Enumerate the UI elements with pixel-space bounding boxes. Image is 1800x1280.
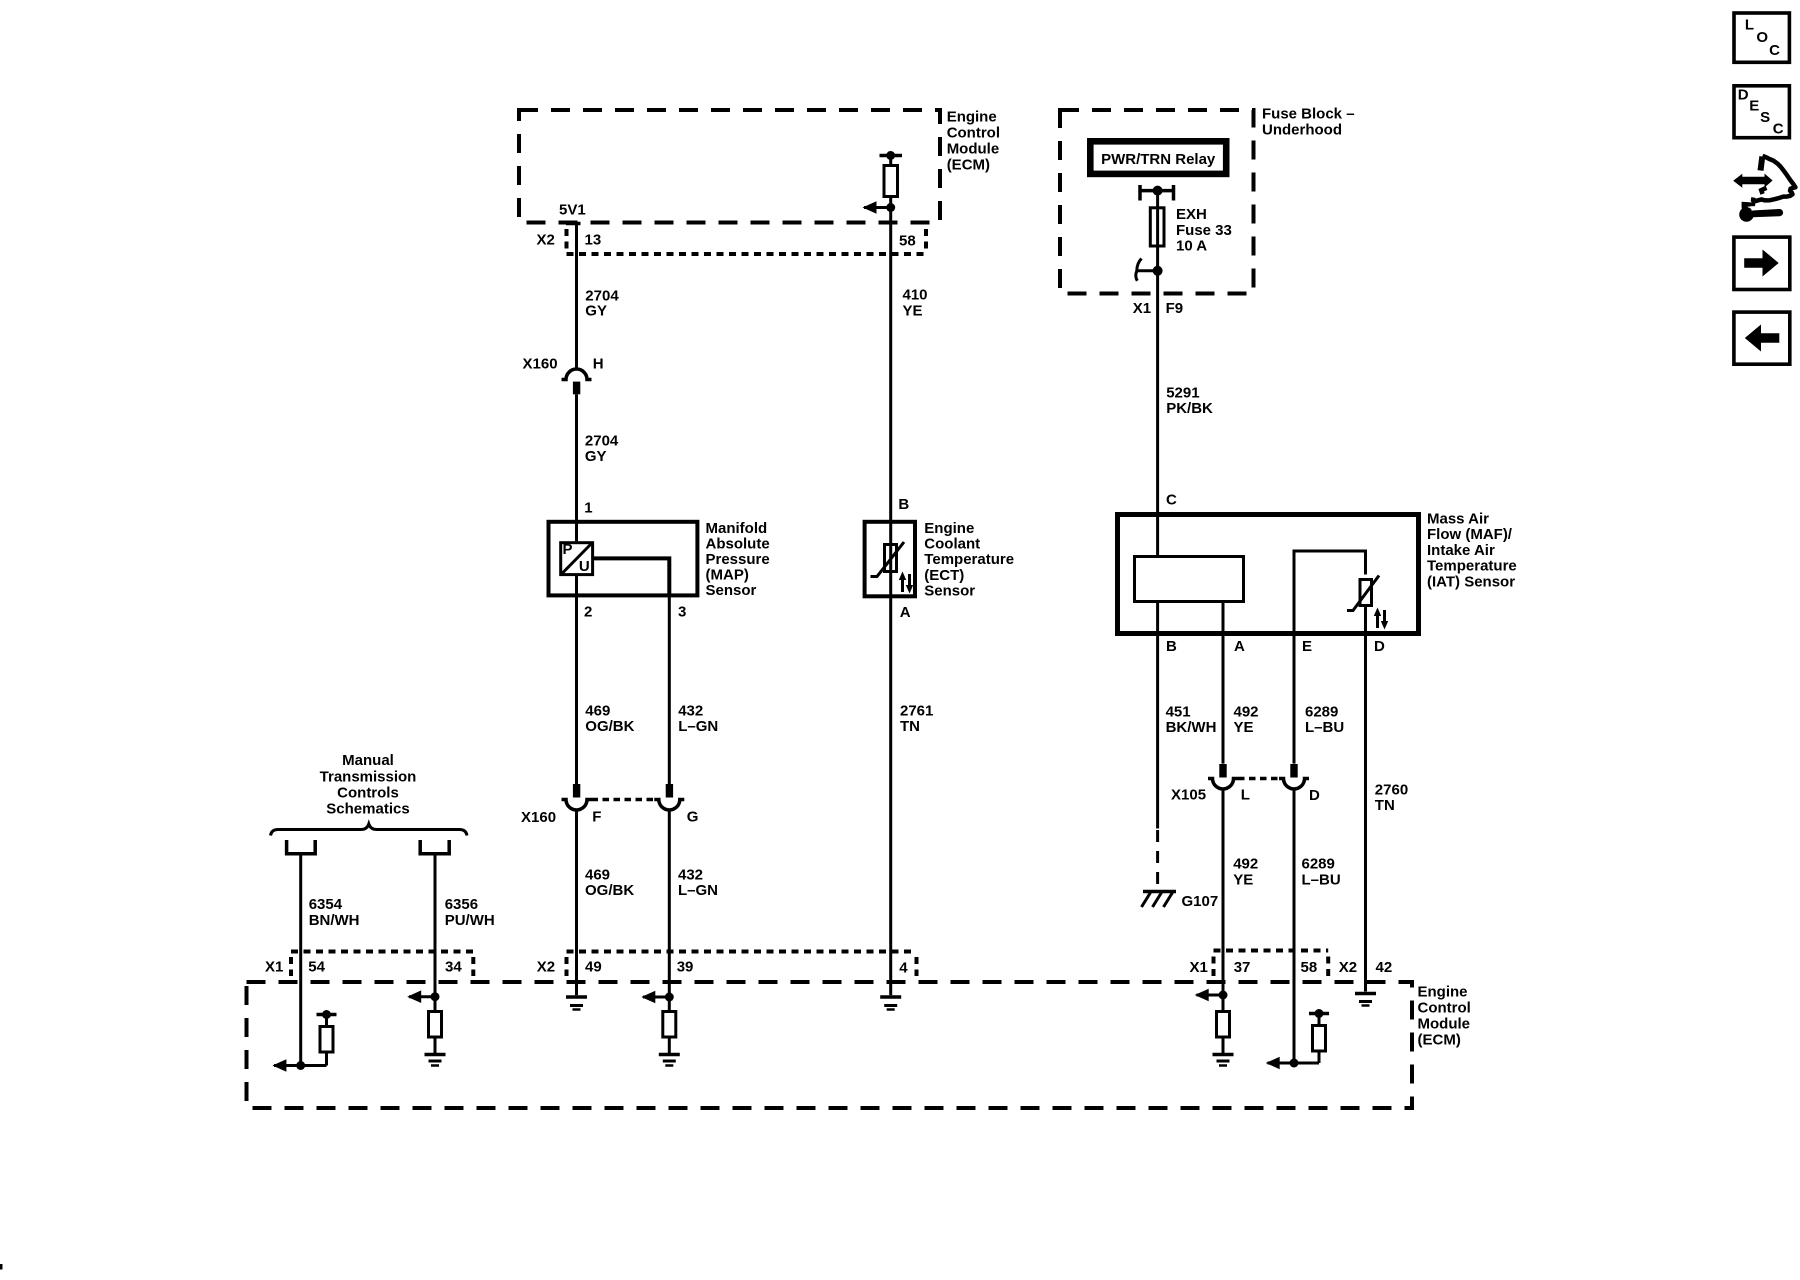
svg-text:Controls: Controls	[337, 784, 399, 801]
svg-text:Temperature: Temperature	[1427, 558, 1517, 575]
svg-text:492: 492	[1233, 856, 1258, 873]
inline connector X105 pins L and D	[1171, 764, 1320, 804]
wire 6354 BN/WH (to ECM pin 54)	[301, 854, 360, 1066]
IAT variable arrows	[1374, 608, 1388, 630]
svg-text:4: 4	[899, 960, 908, 977]
svg-text:D: D	[1738, 87, 1749, 104]
svg-text:(ECM): (ECM)	[947, 156, 990, 173]
toolbar button next	[1734, 237, 1790, 289]
svg-text:410: 410	[903, 287, 928, 304]
svg-text:49: 49	[585, 959, 602, 976]
svg-text:U: U	[579, 558, 590, 575]
toolbar button back	[1734, 312, 1790, 364]
svg-text:Engine: Engine	[947, 108, 997, 125]
svg-text:2: 2	[584, 604, 592, 621]
ground at pin 37	[1213, 1055, 1234, 1066]
svg-text:34: 34	[445, 959, 462, 976]
svg-text:B: B	[898, 496, 909, 513]
pin 58 pull-up resistor	[1309, 1009, 1329, 1063]
ECT thermistor element	[871, 522, 905, 597]
pin 39 internal circuit: arrow junction	[641, 991, 674, 1004]
svg-text:Temperature: Temperature	[924, 551, 1014, 568]
svg-text:Mass Air: Mass Air	[1427, 511, 1489, 528]
svg-text:X1: X1	[1190, 959, 1208, 976]
svg-text:3: 3	[678, 604, 686, 621]
wire 469 OG/BK (X160 F to ECM pin 49)	[577, 810, 635, 995]
svg-text:Absolute: Absolute	[706, 536, 770, 553]
pin 39 resistor to ground	[663, 997, 676, 1053]
svg-text:C: C	[1166, 491, 1177, 508]
toolbar button DESC	[1734, 86, 1789, 138]
svg-text:Fuse Block –: Fuse Block –	[1262, 106, 1355, 123]
pin 34 resistor to ground	[429, 997, 442, 1053]
svg-text:X160: X160	[521, 809, 556, 826]
ground at pin 42	[1355, 994, 1376, 1006]
fuse EXH Fuse 33 10 A	[1150, 191, 1232, 271]
svg-text:Schematics: Schematics	[326, 800, 409, 817]
svg-text:Transmission: Transmission	[320, 768, 417, 785]
svg-text:Flow (MAF)/: Flow (MAF)/	[1427, 526, 1513, 543]
svg-text:O: O	[1756, 29, 1768, 46]
svg-text:OG/BK: OG/BK	[585, 882, 634, 899]
svg-text:Underhood: Underhood	[1262, 121, 1342, 138]
wire 5291 PK/BK (fuse F9 to MAF pin C)	[1158, 271, 1213, 557]
svg-text:A: A	[1234, 638, 1245, 655]
svg-text:Engine: Engine	[1418, 984, 1468, 1001]
svg-text:F: F	[592, 809, 601, 826]
wire 451 BK/WH (MAF pin B toward G107)	[1158, 602, 1217, 829]
ground at pin 34	[425, 1055, 446, 1066]
ground at pin 39	[659, 1055, 680, 1066]
svg-text:YE: YE	[1234, 719, 1254, 736]
wire 410 YE (ECM pin 58 to ECT pin B)	[891, 208, 928, 522]
ECT sensor box (Engine Coolant Temperature)	[865, 496, 1014, 621]
IAT internal frame wire	[1294, 551, 1366, 634]
ECM X1 connector strip (pins 54, 34)	[265, 952, 473, 977]
MAP pin labels 2 and 3	[584, 604, 686, 621]
svg-text:5291: 5291	[1166, 385, 1199, 402]
svg-text:P: P	[563, 541, 573, 558]
svg-text:451: 451	[1166, 704, 1191, 721]
pin 54 internal circuit: arrow junction	[272, 1059, 326, 1072]
svg-text:E: E	[1302, 638, 1312, 655]
wire 492 YE (X105 L to ECM pin 37)	[1223, 789, 1258, 995]
svg-text:S: S	[1760, 109, 1770, 126]
svg-text:PWR/TRN Relay: PWR/TRN Relay	[1101, 151, 1216, 168]
svg-text:L–GN: L–GN	[678, 882, 718, 899]
svg-text:Module: Module	[947, 140, 1000, 157]
svg-text:G107: G107	[1182, 893, 1219, 910]
svg-text:2704: 2704	[585, 432, 619, 449]
ground G107	[1142, 892, 1219, 911]
svg-text:Pressure: Pressure	[706, 551, 770, 568]
svg-text:54: 54	[308, 959, 325, 976]
pin 34 internal circuit: arrow junction	[407, 990, 439, 1003]
svg-text:Manual: Manual	[342, 752, 394, 769]
svg-text:Control: Control	[947, 124, 1000, 141]
svg-text:BK/WH: BK/WH	[1166, 719, 1217, 736]
svg-text:Control: Control	[1418, 1000, 1471, 1017]
svg-text:2761: 2761	[900, 702, 933, 719]
off-page connector to wire 6356	[420, 840, 449, 854]
pin 37 resistor to ground	[1217, 995, 1230, 1053]
svg-text:58: 58	[1301, 959, 1318, 976]
svg-text:492: 492	[1234, 704, 1259, 721]
svg-text:(ECM): (ECM)	[1418, 1032, 1461, 1049]
pin 37 internal circuit: arrow junction	[1195, 989, 1228, 1002]
svg-text:X2: X2	[1339, 959, 1357, 976]
ground at pin 49	[566, 997, 587, 1010]
svg-text:Manifold: Manifold	[706, 520, 768, 537]
inline connector X160 pins F and G	[521, 784, 698, 826]
svg-text:EXH: EXH	[1176, 206, 1207, 223]
svg-text:Engine: Engine	[924, 520, 974, 537]
ground at pin 4	[880, 997, 901, 1010]
wire 2761 TN (ECT pin A to ECM pin 4)	[891, 596, 934, 995]
wire 6289 L-BU (MAF pin E to X105 D)	[1294, 634, 1344, 764]
ECM X1 connector strip (pins 37, 58)	[1190, 951, 1329, 977]
wire splice to ground (dashed)	[1156, 830, 1159, 889]
fuse block connector X1 pin F9	[1133, 300, 1183, 317]
svg-text:GY: GY	[585, 448, 607, 465]
svg-text:BN/WH: BN/WH	[309, 912, 360, 929]
svg-text:TN: TN	[900, 718, 920, 735]
svg-text:TN: TN	[1375, 797, 1395, 814]
svg-text:Sensor: Sensor	[706, 582, 757, 599]
svg-text:Intake Air: Intake Air	[1427, 542, 1495, 559]
note Manual Transmission Controls Schematics	[320, 752, 417, 817]
svg-text:A: A	[900, 604, 911, 621]
svg-text:6356: 6356	[445, 896, 478, 913]
svg-text:6289: 6289	[1305, 704, 1338, 721]
svg-text:D: D	[1374, 638, 1385, 655]
MAP transducer P/U element	[561, 522, 593, 596]
svg-text:H: H	[593, 355, 604, 372]
MAP internal output wire to pin 3	[593, 558, 670, 595]
ECM bottom module box (Engine Control Module)	[247, 982, 1471, 1108]
svg-text:5V1: 5V1	[559, 202, 586, 219]
pin 54 pull-up resistor	[317, 1010, 337, 1066]
svg-text:1: 1	[584, 500, 592, 517]
svg-text:469: 469	[585, 702, 610, 719]
svg-text:YE: YE	[903, 302, 923, 319]
svg-text:X105: X105	[1171, 787, 1206, 804]
Fuse Block - Underhood box	[1060, 106, 1355, 294]
toolbar button LOC	[1734, 13, 1789, 62]
svg-text:L–GN: L–GN	[678, 718, 718, 735]
svg-text:Sensor: Sensor	[924, 583, 975, 600]
svg-text:OG/BK: OG/BK	[585, 718, 634, 735]
svg-text:L–BU: L–BU	[1305, 719, 1344, 736]
toolbar icon jump-to-harness	[1733, 156, 1795, 201]
pin 58 internal circuit: arrow junction	[1266, 1057, 1319, 1070]
svg-text:X1: X1	[265, 959, 283, 976]
relay PWR/TRN Relay	[1090, 141, 1226, 174]
svg-text:C: C	[1773, 121, 1784, 138]
toolbar icon wrench	[1739, 202, 1783, 222]
wire 6356 PU/WH (to ECM pin 34)	[435, 854, 495, 997]
node 5V1	[559, 202, 586, 224]
svg-text:G: G	[687, 809, 699, 826]
svg-text:Module: Module	[1418, 1016, 1471, 1033]
svg-text:PU/WH: PU/WH	[445, 912, 495, 929]
wire 2704 GY (pin 13 to X160)	[577, 224, 620, 370]
svg-text:X1: X1	[1133, 300, 1151, 317]
svg-text:2760: 2760	[1375, 782, 1408, 799]
ECM X2 pin 42 labels	[1339, 959, 1392, 976]
svg-text:PK/BK: PK/BK	[1166, 400, 1213, 417]
svg-text:E: E	[1749, 97, 1759, 114]
wire 469 OG/BK (MAP pin 2 to X160 F)	[577, 595, 635, 784]
svg-text:6289: 6289	[1302, 856, 1335, 873]
MAF/IAT sensor box (Mass Air Flow / Intake Air Temperature)	[1118, 511, 1517, 634]
svg-text:(MAP): (MAP)	[706, 567, 749, 584]
svg-text:C: C	[1769, 42, 1780, 59]
svg-text:X160: X160	[523, 355, 558, 372]
svg-text:39: 39	[677, 959, 694, 976]
svg-text:58: 58	[899, 233, 916, 250]
page edge mark	[0, 1264, 3, 1270]
svg-text:37: 37	[1234, 959, 1251, 976]
svg-text:D: D	[1309, 787, 1320, 804]
svg-text:GY: GY	[585, 302, 607, 319]
svg-text:YE: YE	[1233, 872, 1253, 889]
off-page connector to wire 6354	[287, 840, 316, 854]
wire 2760 TN (MAF pin D to ECM pin 42)	[1366, 634, 1409, 992]
inline connector X160 pin H	[523, 355, 604, 394]
svg-text:L: L	[1745, 17, 1754, 34]
svg-text:(IAT) Sensor: (IAT) Sensor	[1427, 573, 1515, 590]
svg-text:10 A: 10 A	[1176, 237, 1207, 254]
MAF pin labels B A E D	[1166, 638, 1385, 655]
svg-text:(ECT): (ECT)	[924, 567, 964, 584]
signal arrow at pin 58 junction	[863, 201, 896, 214]
svg-text:Coolant: Coolant	[924, 536, 980, 553]
relay output contact bracket	[1140, 185, 1174, 201]
IAT thermistor element	[1347, 576, 1379, 634]
ECM top module box (Engine Control Module)	[519, 108, 1000, 222]
svg-text:X2: X2	[537, 959, 555, 976]
resistor in ECM (pull-up on pin 58)	[880, 151, 903, 208]
wire 432 L-GN (MAP pin 3 to X160 G)	[669, 595, 718, 784]
svg-text:L–BU: L–BU	[1302, 872, 1341, 889]
wire 492 YE (MAF pin A to X105 L)	[1223, 602, 1259, 764]
svg-text:X2: X2	[537, 232, 555, 249]
wire 6289 L-BU (X105 D to ECM pin 58)	[1294, 789, 1341, 1063]
svg-text:432: 432	[678, 702, 703, 719]
brace under note	[271, 824, 468, 836]
ECT variable arrows	[899, 572, 913, 594]
svg-text:13: 13	[585, 232, 602, 249]
terminal hook at fuse output	[1136, 259, 1163, 281]
ECM X2 connector strip (pins 49, 39, 4)	[537, 952, 917, 977]
MAP sensor box (Manifold Absolute Pressure)	[549, 520, 770, 599]
svg-text:42: 42	[1376, 959, 1393, 976]
svg-text:B: B	[1166, 638, 1177, 655]
svg-text:F9: F9	[1166, 300, 1184, 317]
ECM X2 connector strip (pins 13, 58)	[537, 229, 927, 254]
wire 2704 GY (X160 to MAP pin 1)	[577, 394, 619, 541]
svg-text:L: L	[1241, 787, 1250, 804]
wire 432 L-GN (X160 G to ECM pin 39)	[669, 810, 718, 997]
MAF sensing element	[1135, 557, 1244, 602]
svg-text:6354: 6354	[309, 896, 343, 913]
